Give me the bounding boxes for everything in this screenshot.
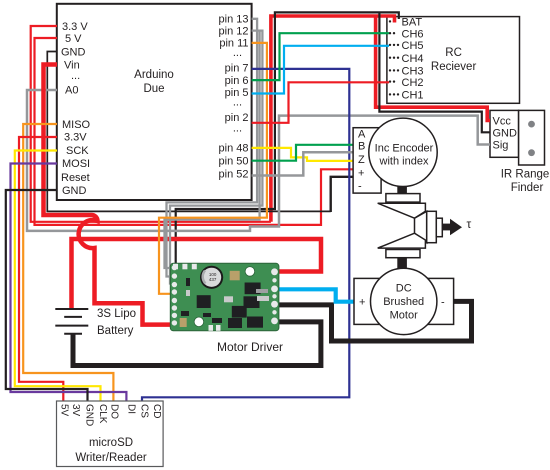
right edge pads: [271, 268, 278, 324]
wire: MISO orange to microSD DO: [23, 124, 113, 401]
svg-text:pin 6: pin 6: [225, 75, 249, 87]
svg-text:-: -: [441, 297, 445, 309]
gear right cone: [415, 211, 427, 242]
svg-text:Battery: Battery: [97, 325, 134, 337]
wire: pin48 yellow to encoder Z: [252, 148, 355, 161]
svg-text:pin 50: pin 50: [219, 156, 249, 168]
svg-text:CLK: CLK: [97, 404, 108, 424]
svg-text:DI: DI: [125, 404, 136, 414]
svg-text:A: A: [358, 129, 366, 141]
svg-text:5 V: 5 V: [65, 33, 82, 45]
wire: gray to motor driver left pad 1: [165, 31, 260, 268]
svg-text:RC: RC: [445, 47, 462, 59]
wire: MOSI purple to microSD DI: [11, 164, 127, 402]
motor shaft: [397, 258, 407, 269]
Arduino left pin labels: [61, 21, 91, 197]
svg-text:MOSI: MOSI: [62, 158, 90, 170]
svg-text:DC: DC: [396, 283, 412, 295]
small passives: [230, 271, 240, 281]
wire: pin13 gray to motor driver left pad 2: [167, 19, 258, 277]
svg-text:CH6: CH6: [402, 29, 424, 41]
svg-text:pin 52: pin 52: [219, 169, 249, 181]
wire: A0 gray to IR Sig: [27, 90, 490, 231]
svg-text:Motor Driver: Motor Driver: [217, 340, 283, 354]
svg-text:3S Lipo: 3S Lipo: [97, 308, 136, 320]
svg-text:microSD: microSD: [89, 437, 133, 449]
wire: encoder minus black stub: [331, 177, 354, 212]
wire: black GND riser to RC BAT and wrap to IR GND: [176, 12, 399, 266]
wire: 5V red rail to encoder +: [35, 38, 355, 225]
svg-text:A0: A0: [65, 85, 78, 97]
svg-text:Sig: Sig: [493, 140, 509, 152]
gear bottom cone: [378, 233, 426, 248]
svg-text:Arduino: Arduino: [134, 69, 174, 81]
wire: thick red riser to RC receiver top, wrap around receiver to IR Vcc: [271, 16, 395, 222]
svg-text:CH1: CH1: [402, 90, 424, 102]
bottom edge pins: [209, 325, 214, 331]
svg-text:Finder: Finder: [511, 182, 544, 194]
electrolytic capacitor: [200, 266, 223, 289]
wire: pin7 navy blue to microSD CS: [142, 69, 349, 401]
svg-text:5V: 5V: [59, 404, 70, 417]
encoder circle: [369, 118, 437, 186]
svg-text:CH3: CH3: [402, 66, 424, 78]
svg-text:3.3V: 3.3V: [64, 132, 87, 144]
mounting holes: [245, 267, 255, 277]
DC Brushed Motor: [354, 268, 454, 334]
RC receiver pin labels with dots: [402, 17, 424, 102]
Arduino Due box U1: [57, 4, 252, 200]
svg-text:GND: GND: [83, 404, 94, 426]
main IC: [197, 295, 211, 308]
wire: pin52 gray to encoder A: [252, 152, 355, 175]
microSD Writer/Reader box: [57, 401, 164, 467]
svg-text:pin 48: pin 48: [219, 143, 249, 155]
wire: Vin thick red with hop arc down to battery junction and motor driver VIN pad: [44, 65, 174, 325]
svg-text:BAT: BAT: [402, 17, 423, 29]
svg-text:3.3 V: 3.3 V: [62, 21, 88, 33]
wire: 3.3V (top) red rail to RC/IR power, thin part: [31, 26, 271, 222]
wire: red wrap down receiver left edge, bottom, into IR Vcc: [376, 16, 490, 121]
svg-text:...: ...: [71, 70, 80, 82]
3S Lipo Battery BT1: [55, 309, 88, 334]
svg-text:-: -: [358, 180, 362, 192]
wire: GND2 black to microSD GND: [6, 190, 88, 401]
svg-text:DO: DO: [109, 404, 120, 419]
RC receiver pin dots: [389, 20, 399, 95]
Incremental Encoder: connector box: [353, 128, 381, 193]
svg-text:Inc Encoder: Inc Encoder: [375, 143, 434, 155]
svg-text:pin 12: pin 12: [219, 26, 249, 38]
wire: black wrap down receiver left edge to IR GND: [379, 12, 490, 132]
svg-text:CS: CS: [139, 404, 150, 418]
svg-text:Z: Z: [358, 154, 365, 166]
left edge pads: [172, 265, 177, 326]
svg-text:Due: Due: [143, 83, 164, 95]
svg-text:GND: GND: [493, 127, 518, 139]
svg-text:Vcc: Vcc: [493, 116, 512, 128]
svg-text:GND: GND: [62, 185, 87, 197]
wire: 3.3V (lower) red to microSD 5V: [19, 137, 63, 401]
svg-text:B: B: [358, 141, 365, 153]
svg-text:+: +: [359, 297, 365, 309]
top edge pads: [173, 264, 178, 270]
wire: pin2 red to RC CH2: [252, 82, 389, 123]
RC Receiver box: [387, 17, 520, 104]
battery - thick black wire to motor driver OUT pad B: [73, 322, 321, 366]
encoder pin labels: [358, 129, 366, 193]
svg-text:+: +: [358, 168, 364, 180]
encoder shaft: [397, 186, 407, 194]
svg-text:...: ...: [233, 123, 242, 135]
svg-text:τ: τ: [467, 217, 472, 231]
svg-text:Reciever: Reciever: [431, 61, 477, 73]
IR Range Finder box: [490, 110, 549, 194]
svg-text:Writer/Reader: Writer/Reader: [75, 452, 147, 464]
wire: pin50 green to encoder B: [252, 145, 355, 161]
svg-text:CH4: CH4: [402, 53, 424, 65]
svg-text:Motor: Motor: [390, 310, 418, 322]
torque arrow tau: [442, 224, 451, 231]
svg-text:with index: with index: [379, 156, 429, 168]
svg-text:3V: 3V: [70, 404, 81, 417]
svg-text:IR Range: IR Range: [501, 169, 550, 181]
svg-text:CD: CD: [151, 404, 162, 418]
wire: pin11 orange to motor driver left pad 4: [159, 43, 267, 294]
MOSFET chips: [245, 283, 261, 295]
wire: pin6 green to RC CH6: [252, 33, 389, 80]
svg-text:GND: GND: [61, 47, 86, 59]
svg-text:...: ...: [233, 97, 242, 109]
gear top plate: [386, 194, 420, 203]
gear bottom plate: [386, 250, 420, 258]
wire: pin5 cyan to RC CH5: [252, 46, 389, 94]
wire: motor driver OUT pad A cyan to DC motor plus: [276, 289, 354, 301]
svg-text:...: ...: [233, 47, 242, 59]
svg-text:Brushed: Brushed: [383, 296, 424, 308]
microSD rotated pin labels: [59, 404, 163, 426]
gear top cone: [378, 203, 426, 218]
svg-text:437: 437: [209, 277, 217, 282]
svg-text:CH5: CH5: [402, 40, 424, 52]
svg-text:CH2: CH2: [402, 77, 424, 89]
svg-text:pin 13: pin 13: [219, 14, 249, 26]
gear hub: [436, 218, 442, 237]
svg-text:MISO: MISO: [62, 119, 91, 131]
svg-text:SCK: SCK: [66, 145, 89, 157]
gear right wheel plate: [427, 211, 437, 242]
wire: motor driver GND pad to DC motor minus: [276, 301, 472, 341]
svg-text:pin 7: pin 7: [225, 63, 249, 75]
wire: SCK yellow to microSD CLK: [15, 151, 101, 402]
wire: battery + rail to motor driver right VIN pad: [72, 239, 322, 309]
Motor Driver PCB (Pololu-style board): [170, 263, 279, 331]
Arduino right pin labels: [219, 14, 249, 181]
wire: pin12 gray to motor driver left pad 3: [170, 31, 262, 284]
svg-text:Reset: Reset: [61, 172, 90, 184]
wire: GND1 black rail: [47, 52, 330, 212]
